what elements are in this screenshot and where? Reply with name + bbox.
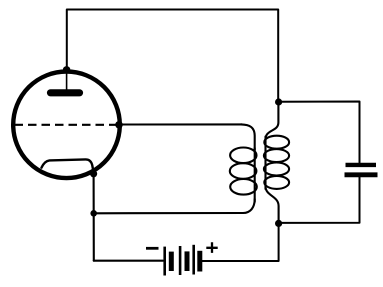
wire plate lead: tube top up, across top, down to tank coil: [67, 10, 278, 101]
inductor L2 exit bend: [266, 187, 279, 223]
battery B1 cell 1 long plate: [163, 247, 166, 276]
battery B1 cell 1 short plate: [169, 252, 174, 271]
wire grid to coil L1 top: [119, 123, 242, 125]
node: cathode at tube bottom right: [90, 170, 97, 177]
battery B1 cell 3 long plate: [192, 245, 195, 275]
battery B1 cell 3 short plate: [197, 251, 202, 272]
inductor L1 (grid coil) entry bend: [241, 124, 255, 150]
battery polarity plus sign: [206, 242, 217, 253]
inductor L2 loop 1: [264, 136, 289, 149]
vacuum tube plate (anode) bar: [51, 89, 80, 96]
battery B1 cell 2 long plate: [179, 246, 182, 275]
capacitor C1 top plate: [346, 163, 377, 167]
node: plate at tube top: [63, 66, 70, 73]
wire tank bottom node down to battery plus: [202, 223, 279, 261]
wire battery minus lead: [94, 260, 163, 262]
node: tank coil bottom junction: [275, 220, 282, 227]
inductor L1 loop 2: [230, 163, 257, 179]
wire cathode down to battery minus: [93, 174, 95, 261]
wire capacitor C1 bottom to tank bottom node: [281, 177, 360, 223]
inductor L2 loop 3: [264, 163, 289, 176]
node: grid at tube right: [115, 121, 123, 129]
inductor L2 axis: [264, 137, 266, 190]
capacitor C1 bottom plate: [345, 172, 378, 177]
battery polarity minus sign: [146, 247, 159, 250]
inductor L1 axis: [254, 148, 256, 202]
wire L1 bottom to cathode node: [94, 212, 243, 214]
inductor L1 loop 1: [230, 148, 256, 164]
node: tank coil top junction: [275, 98, 282, 105]
inductor L2 loop 4: [264, 176, 289, 189]
battery B1 cell 2 short plate: [185, 251, 190, 271]
inductor L2 loop 2: [264, 149, 289, 162]
vacuum tube V1 envelope: [13, 72, 120, 179]
inductor L2 (tank coil) entry bend: [266, 100, 279, 139]
wire tank top to capacitor C1: [279, 102, 360, 163]
node: cathode / L1 bottom junction: [90, 210, 97, 217]
inductor L1 loop 3: [230, 179, 257, 195]
cathode / filament: [42, 159, 94, 172]
plate connecting lead inside tube: [66, 70, 68, 89]
inductor L1 exit bend: [243, 199, 255, 213]
grid (dashed line): [15, 124, 120, 126]
